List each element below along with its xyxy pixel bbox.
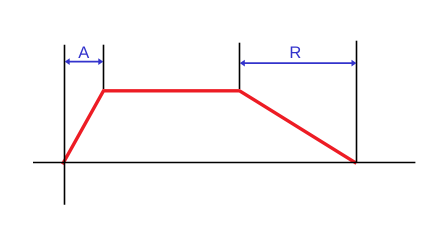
arrowhead A right (98, 58, 103, 65)
arrowhead R right (352, 60, 357, 67)
vertical line V4 (right end) (356, 41, 358, 163)
red trapezoid velocity profile (63, 91, 357, 165)
dimension arrow A shaft (66, 61, 102, 63)
vertical line V2 (end of accel) (103, 45, 105, 89)
arrowhead A left (65, 58, 70, 65)
vertical line V1 (left axis) (64, 45, 66, 205)
horizontal axis (33, 162, 415, 164)
vertical line V3 (start of decel) (239, 43, 241, 89)
arrowhead R left (240, 60, 245, 67)
svg-text:A: A (78, 44, 89, 62)
dimension arrow R shaft (241, 62, 355, 64)
svg-text:R: R (289, 44, 301, 62)
